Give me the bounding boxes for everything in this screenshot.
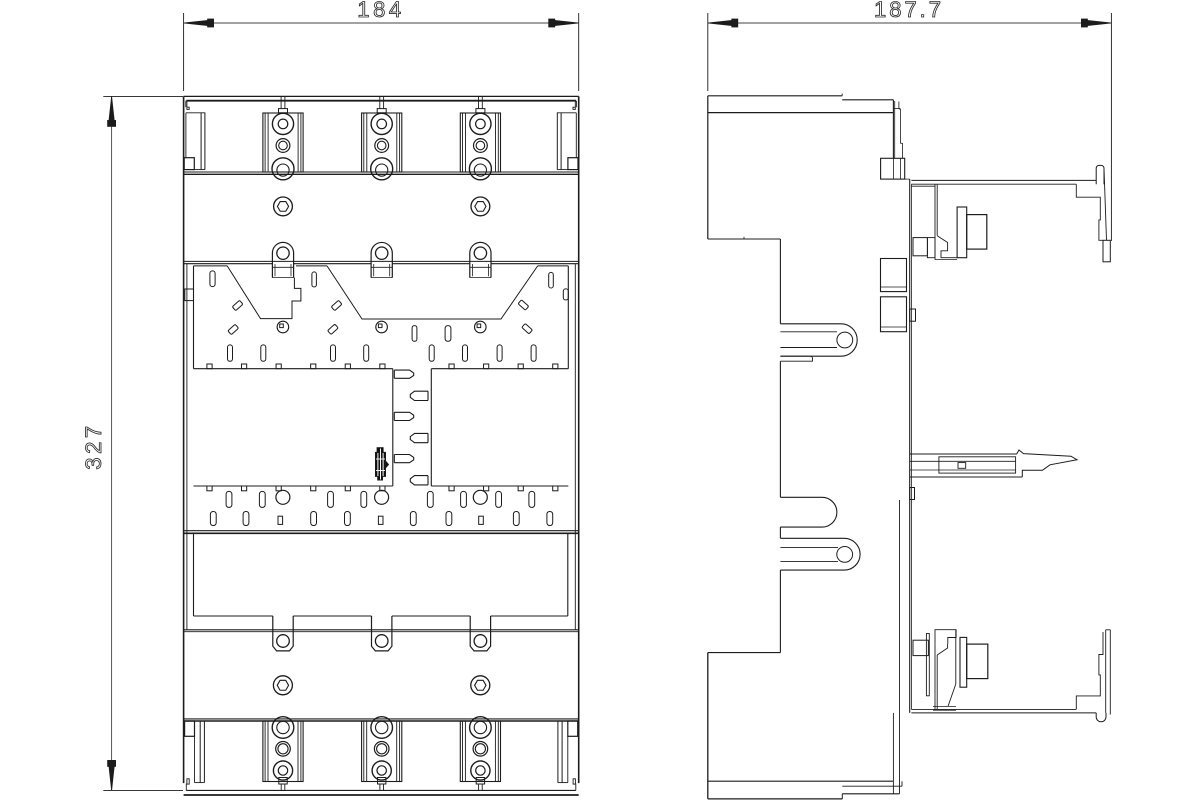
lower body bottom edge (double line) [184,718,579,720]
svg-text:187.7: 187.7 [874,0,944,22]
upper terminal block pole 3 wire stub [478,96,480,108]
strip row-B slots [228,345,233,361]
front bottom mounting band [186,789,576,791]
lower terminal pole 2 middle ring [374,742,389,757]
lower body hex screw left [273,676,292,695]
side view left step [708,238,781,240]
upper terminal block pole 2 wire stub [379,96,381,108]
lower strip row-1 slots [226,491,232,507]
lower white cover box [193,534,195,616]
front view outer right edge [578,96,580,783]
lower terminal pole 3 middle ring [473,742,488,757]
upper terminal pole 3 clamp screw circle [470,113,491,134]
channel interlock tabs right [410,391,428,400]
front upper-right shroud wall [575,101,577,108]
strip top vertical slots [210,271,215,287]
vent trapezoid 2 (pole2-3, large) [327,266,538,319]
lower strip screw circles [276,490,290,504]
lower terminal pole 2 upper circle [371,717,393,739]
strip row-A slots [412,326,417,342]
lower mounting tab pole 2 [372,616,392,651]
strip screw circles [277,321,289,333]
side view front face line [708,112,893,114]
svg-text:327: 327 [81,422,106,470]
side mounting plane (back) [909,179,911,713]
dimension 184 (front view width) [183,13,185,91]
front top mounting band [184,95,579,97]
side view left edge upper [707,96,709,239]
front view outer left edge [183,96,185,783]
upper terminal pole 3 middle ring [474,139,488,153]
side upper terminal shroud box [881,158,905,179]
lower terminal block pole 1 body [263,721,303,782]
upper body hex screw right [471,197,490,216]
upper terminal block pole 1 body [263,113,303,172]
terminal lug 1 (upper, side) [780,324,857,356]
lower terminal pole 2 wire stub [378,778,386,785]
lower mounting tab pole 1 [273,616,293,651]
upper mounting tab pole 2 [371,242,392,277]
lower mounting tab pole 3 [470,616,490,651]
angled vent slots [232,300,243,310]
lower body hex screw right [471,676,490,695]
side view lower-left step [708,652,781,654]
lower terminal pole 1 middle ring [276,742,291,757]
top DIN bracket hook [1096,165,1104,184]
arc strip left edge [193,266,195,369]
center cover left box [392,369,394,486]
side view left edge lower [707,653,709,799]
bottom DIN bracket hook [1096,713,1106,722]
upper mounting tab pole 1 [272,242,293,277]
lower terminal pole 1 clamp screw circle [273,761,292,780]
DIN release slider [910,453,1017,455]
front lower-left shroud wall [185,721,195,736]
top rail clamp assembly [911,185,935,187]
strip bottom wall stubs [207,364,212,369]
bottom rail clamp assembly [935,630,956,644]
lower terminal pole 1 upper circle [272,717,294,739]
upper mounting tab pole 3 [470,242,491,277]
lower terminal block pole 2 body [362,721,402,782]
lower strip bottom edge (double) [184,530,579,532]
lower terminal pole 2 clamp screw circle [372,761,391,780]
upper terminal pole 2 clamp screw circle [371,113,392,134]
channel interlock tabs left [394,370,413,378]
front upper-left shroud wall [185,101,187,108]
bottom DIN bracket arm [911,712,1096,714]
lower strip top wall stubs [207,486,212,491]
lower terminal block pole 3 body [460,721,500,782]
front lower-right shroud wall [568,721,578,736]
upper terminal block pole 2 body [362,113,402,172]
upper terminal pole 2 lower circle [371,158,393,180]
center cover right box [430,369,432,486]
small hatched datum mark [375,448,388,481]
strip left edge notch [185,289,194,301]
lower terminal pole 1 wire stub [279,778,287,785]
svg-text:184: 184 [357,0,405,22]
lower terminal pole 3 wire stub [476,778,484,785]
side view bottom base [708,798,843,800]
lower terminal pole 3 upper circle [470,717,492,739]
upper terminal pole 3 lower circle [469,158,491,180]
strip bottom edge [194,368,393,370]
side view top edge [708,95,842,97]
upper terminal pole 1 lower circle [272,158,294,180]
lower body top edge (double line) [184,629,579,631]
upper terminal block pole 1 wire stub [280,96,282,108]
side rear small tab [910,309,916,321]
arc strip right edge [567,266,569,369]
side rear cover box 2 [881,297,907,332]
upper terminal pole 1 middle ring [276,139,290,153]
lower strip top edge [194,485,393,487]
lower terminal pole 3 clamp screw circle [471,761,490,780]
strip right edge notch [563,289,568,300]
vent trapezoid 1 (pole1-2) [227,266,301,319]
upper body top edge (double line) [184,171,579,173]
dimension 327 (front view height) [103,95,183,97]
side rear cover box 1 [881,259,907,292]
DIN release slider tip [1017,450,1078,477]
side view mid-left edge [779,239,781,324]
side case back upper edge [892,100,894,159]
upper terminal block pole 3 body [460,113,500,172]
middle section inner rails [186,264,188,630]
arc chamber strip top edge segments [194,265,228,267]
dimension 187.7 (side view depth) [707,13,709,91]
stub below slider [910,488,915,500]
upper body hex screw left [274,197,293,216]
rounded boss between lugs (side) [780,497,836,527]
upper terminal pole 2 middle ring [375,139,389,153]
terminal lug 2 (lower, side) [780,538,860,570]
lower strip row-2 slots [210,512,216,526]
top DIN bracket arm [911,179,1096,181]
upper body bottom edge (double line, gaps at tabs) [184,260,579,262]
upper terminal pole 1 clamp screw circle [272,113,293,134]
side case back lower edge [899,500,901,786]
